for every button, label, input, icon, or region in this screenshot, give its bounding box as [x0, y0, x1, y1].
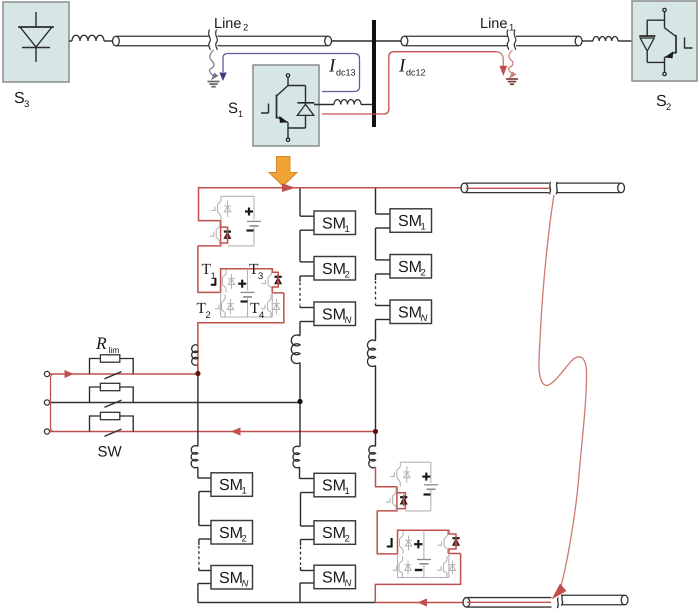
zoom arrow (orange) [269, 157, 297, 187]
svg-text:SW: SW [98, 444, 123, 461]
svg-text:1: 1 [421, 222, 426, 233]
dc cable pipe (top right, right segment) [557, 183, 625, 193]
fault diode T3 (red) [275, 274, 282, 286]
red line inside dc cable [466, 187, 549, 189]
arm inductor (phase C lower) [369, 446, 376, 468]
wire red between lower HB and FB [377, 511, 397, 554]
svg-text:3: 3 [24, 99, 29, 110]
dc cable cut marks (bottom) [557, 595, 563, 608]
svg-text:N: N [242, 578, 249, 589]
bypass resistor Rlim phase 3 [90, 412, 134, 431]
wire negative dc bus red segment [375, 602, 463, 604]
submodule SMN (phase A lower) [211, 566, 253, 590]
svg-text:2: 2 [242, 533, 247, 544]
svg-text:2: 2 [345, 534, 350, 545]
svg-text:2: 2 [666, 102, 671, 113]
full-bridge SM frame (lower detail) [398, 530, 449, 577]
fault path squiggle at Line2 [209, 50, 214, 77]
transmission line Line2 right segment [218, 36, 332, 46]
arm inductor (phase B lower) [293, 446, 300, 468]
wire [332, 40, 373, 42]
label Line2 [214, 16, 248, 34]
wire [376, 40, 401, 42]
transmission line Line1 right segment [516, 36, 582, 46]
svg-text:R: R [95, 333, 107, 353]
svg-text:1: 1 [345, 224, 350, 235]
wire [299, 363, 301, 402]
dashed continuation (phase C upper) [375, 281, 377, 303]
fault diode (lower HB, red) [400, 495, 407, 506]
fault current curve (red) [539, 195, 587, 586]
svg-text:Line: Line [214, 16, 241, 32]
IGBT TL (lower FB) [400, 531, 412, 554]
capacitor labels + - (lower HB) [422, 473, 430, 495]
wire [361, 104, 372, 106]
node phase B midpoint [297, 399, 302, 404]
fault diode TR (red) [452, 536, 459, 548]
submodule SM1 (phase B upper) [314, 211, 356, 235]
svg-text:2: 2 [421, 267, 426, 278]
node phase A midpoint [195, 371, 200, 376]
svg-text:S: S [228, 100, 238, 117]
label T3 [249, 261, 263, 282]
red path around HB lower IGBT [198, 221, 228, 247]
wire [314, 104, 334, 106]
wire Idc13 current path (blue) [223, 54, 360, 92]
dc bus bar [372, 20, 376, 127]
bypass resistor Rlim phase 1 [90, 355, 134, 374]
submodule SMN (phase B lower) [314, 565, 356, 589]
ground (Line2 fault) [208, 82, 220, 87]
fault squiggle arrowhead (red) [509, 72, 517, 79]
submodule SM1 (phase A lower) [211, 473, 253, 497]
IGBT (upper HB top) [211, 196, 231, 220]
transmission line Line2 left segment [113, 36, 210, 46]
label T1 [202, 261, 216, 282]
half-bridge SM frame (upper detail) [221, 196, 261, 246]
wire Idc12 current path (red) [322, 52, 497, 114]
label S2 [656, 93, 671, 113]
svg-text:SM: SM [398, 213, 422, 230]
switch SW phase 1 [105, 372, 122, 379]
wire phase B lower arm [300, 404, 315, 603]
label T4 [250, 300, 264, 321]
wire phase C upper arm [376, 188, 391, 340]
switch SW phase 3 [105, 429, 122, 436]
svg-text:SM: SM [322, 215, 346, 232]
svg-text:N: N [421, 313, 428, 324]
IGBT (upper HB bottom) [210, 222, 220, 246]
label SW [98, 444, 123, 461]
svg-text:3: 3 [258, 271, 263, 282]
inductor (S2 smoothing reactor) [593, 37, 618, 41]
IGBT T4 (upper FB) [261, 295, 280, 318]
capacitor labels + - (upper HB) [245, 208, 254, 231]
label Rlim [95, 333, 119, 355]
TL gate mark (black) [387, 538, 392, 547]
Line1 break cut marks [507, 30, 516, 51]
svg-text:1: 1 [345, 486, 350, 497]
svg-text:SM: SM [322, 569, 346, 586]
submodule SM2 (phase B lower) [314, 521, 356, 545]
svg-text:Line: Line [480, 16, 507, 32]
wire positive dc bus (red fault path) [199, 187, 550, 189]
svg-text:SM: SM [322, 261, 346, 278]
IGBT (lower HB bottom) [386, 488, 396, 511]
converter station S1 (MMC) [253, 65, 319, 146]
full-bridge SM red path (lower detail) [375, 530, 460, 602]
red arrow at Line1 fault [499, 66, 507, 76]
arm inductor (phase A lower) [191, 446, 198, 468]
svg-text:1: 1 [238, 109, 243, 119]
half-bridge SM frame (lower detail) [400, 462, 438, 511]
IGBT (lower HB top) [390, 462, 410, 487]
wire [375, 434, 377, 446]
wire [375, 366, 377, 432]
IGBT T3 (upper FB) [262, 270, 272, 293]
capacitor labels + - (lower FB) [414, 540, 422, 570]
wire [618, 40, 633, 42]
red Idc12 drop to fault [497, 52, 504, 66]
wire red arm path into lower HB [376, 467, 397, 487]
submodule SM1 (phase B lower) [314, 473, 356, 497]
dc cable pipe (top right, left segment) [461, 183, 549, 193]
ac terminal phase 1 [44, 371, 49, 376]
red arrow on dc bus [282, 183, 296, 192]
node phase C midpoint [373, 429, 378, 434]
label Line1 [480, 16, 514, 34]
wire red between HB and FB [198, 246, 221, 293]
wire [104, 40, 112, 42]
T1 gate mark (black) [211, 278, 216, 285]
transmission line Line1 left segment [401, 36, 508, 46]
svg-text:SM: SM [398, 304, 422, 321]
converter station S2 (MMC) [632, 1, 697, 81]
submodule SM1 (phase C upper) [390, 209, 432, 233]
label S3 [14, 90, 29, 110]
dc cable cut marks (top right) [549, 182, 557, 194]
IGBT BR (lower FB) [437, 556, 456, 578]
wire [582, 40, 593, 42]
full-bridge SM frame (upper detail) [221, 269, 273, 317]
svg-text:SM: SM [322, 525, 346, 542]
red arrowhead at bottom cable cut [552, 584, 567, 600]
switch SW phase 2 [105, 400, 122, 407]
submodule SM2 (phase A lower) [211, 521, 253, 545]
bypass resistor Rlim phase 2 [90, 383, 134, 402]
submodule SMN (phase B upper) [314, 302, 356, 326]
full-bridge SM red path (upper detail) [198, 269, 284, 371]
wire phase 3 (red) [50, 431, 376, 433]
converter station S3 (diode rectifier) [3, 2, 69, 82]
dc cable pipe (bottom, right segment) [561, 595, 628, 605]
svg-text:1: 1 [211, 271, 216, 282]
capacitor labels + - (upper FB) [238, 280, 247, 302]
svg-text:SM: SM [398, 259, 422, 276]
svg-text:dc12: dc12 [406, 68, 426, 78]
label Idc12 [398, 56, 426, 78]
IGBT TR (lower FB) [438, 531, 448, 554]
inductor (S1 output reactor) [334, 100, 361, 105]
wire red arm path into HB submodule [199, 187, 221, 221]
svg-text:N: N [345, 315, 352, 326]
red arrow on return path [418, 598, 428, 606]
svg-text:1: 1 [242, 486, 247, 497]
wire red source link [51, 374, 55, 432]
wire phase B upper arm [300, 188, 314, 335]
red line inside bottom cable [467, 601, 551, 603]
svg-text:SM: SM [219, 477, 243, 494]
fault path squiggle at Line1 [508, 50, 513, 75]
submodule SMN (phase C upper) [390, 300, 432, 324]
wire [69, 40, 72, 42]
dashed continuation (phase B upper) [299, 283, 301, 305]
label S1 [228, 100, 243, 119]
dc cable pipe (bottom, left segment) [463, 598, 552, 608]
svg-text:SM: SM [322, 478, 346, 495]
submodule SM2 (phase C upper) [390, 255, 432, 279]
wire phase 1 (red) [50, 373, 197, 375]
red arrow phase 3 (pointing left) [231, 427, 241, 435]
svg-text:SM: SM [322, 306, 346, 323]
label Idc13 [328, 56, 356, 78]
svg-text:dc13: dc13 [336, 68, 356, 78]
svg-text:4: 4 [259, 310, 264, 321]
inductor (S3 smoothing reactor) [72, 35, 104, 41]
svg-text:SM: SM [219, 525, 243, 542]
red path around lower HB IGBT [377, 487, 405, 512]
IGBT T2 (upper FB) [215, 295, 234, 318]
IGBT T1 (upper FB) [223, 270, 235, 293]
dashed continuation (phase A lower) [198, 546, 200, 567]
wire red to phase A node [197, 365, 199, 373]
svg-text:SM: SM [219, 570, 243, 587]
arm inductor (phase B upper) [291, 335, 300, 364]
label T2 [197, 300, 211, 321]
arm inductor (phase C upper) [367, 340, 375, 366]
fault squiggle arrowhead [211, 73, 219, 81]
submodule SM2 (phase B upper) [314, 257, 356, 281]
ac terminal phase 2 [44, 400, 49, 405]
svg-text:2: 2 [206, 310, 211, 321]
wire negative dc bus [198, 602, 375, 604]
Line2 break cut marks [209, 30, 218, 51]
svg-text:lim: lim [109, 345, 120, 355]
wire phase 2 [50, 402, 300, 404]
fault diode (upper HB bottom, red) [224, 229, 231, 240]
ac terminal phase 3 [44, 429, 49, 434]
arm inductor (phase A upper) [192, 345, 198, 366]
svg-text:N: N [345, 578, 352, 589]
wire phase A lower arm [198, 376, 211, 603]
svg-text:1: 1 [509, 23, 514, 34]
red arrow phase 1 [65, 370, 74, 378]
svg-text:2: 2 [243, 23, 248, 34]
blue arrow at fault [219, 73, 226, 82]
IGBT BL (lower FB) [393, 556, 412, 578]
svg-text:2: 2 [345, 269, 350, 280]
dashed continuation (phase B lower) [300, 547, 302, 567]
ground (Line1 fault) [506, 79, 518, 84]
